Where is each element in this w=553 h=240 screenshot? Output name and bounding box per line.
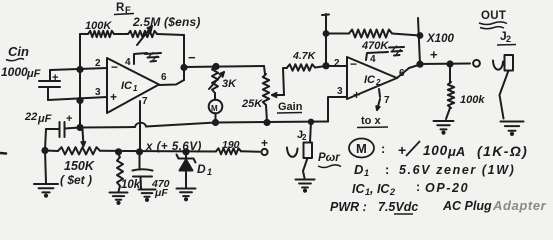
svg-text:7: 7 bbox=[142, 96, 148, 107]
svg-text:2: 2 bbox=[389, 187, 395, 197]
svg-text:−: − bbox=[350, 57, 357, 71]
svg-text:+: + bbox=[52, 72, 58, 84]
svg-text:OUT: OUT bbox=[481, 10, 506, 22]
svg-text:Gain: Gain bbox=[278, 101, 303, 113]
svg-text:+: + bbox=[430, 47, 438, 62]
svg-text:1: 1 bbox=[207, 167, 212, 177]
svg-text:(1K-Ω): (1K-Ω) bbox=[477, 143, 528, 159]
svg-text:μF: μF bbox=[26, 68, 41, 80]
svg-text:PWR :: PWR : bbox=[330, 200, 367, 214]
svg-text:4: 4 bbox=[370, 54, 376, 65]
svg-text:100k: 100k bbox=[460, 94, 485, 106]
svg-text:Adapter: Adapter bbox=[492, 198, 547, 213]
svg-text:2: 2 bbox=[302, 133, 307, 142]
svg-text:Pωr: Pωr bbox=[318, 152, 340, 164]
svg-text:+: + bbox=[353, 88, 360, 102]
svg-text:2: 2 bbox=[95, 58, 101, 69]
svg-text:2: 2 bbox=[375, 78, 381, 87]
svg-text:IC: IC bbox=[121, 80, 133, 92]
svg-text:R: R bbox=[116, 2, 125, 14]
svg-text:100: 100 bbox=[423, 143, 448, 158]
svg-text:1: 1 bbox=[133, 84, 138, 93]
svg-text:+: + bbox=[398, 142, 406, 158]
svg-text:IC: IC bbox=[364, 74, 376, 86]
svg-text:4.7K: 4.7K bbox=[292, 50, 317, 62]
svg-text:470K: 470K bbox=[361, 40, 389, 52]
svg-text:μF: μF bbox=[37, 113, 52, 125]
svg-text:22: 22 bbox=[24, 111, 37, 123]
svg-text:10k: 10k bbox=[121, 179, 141, 191]
svg-text:D: D bbox=[197, 162, 206, 176]
svg-text::: : bbox=[416, 180, 420, 194]
svg-text:x (+ 5.6V): x (+ 5.6V) bbox=[145, 141, 202, 153]
svg-text:7.5Vdc: 7.5Vdc bbox=[378, 200, 418, 214]
svg-text:+: + bbox=[110, 90, 117, 104]
svg-text:7: 7 bbox=[384, 95, 390, 106]
svg-text:AC Plug: AC Plug bbox=[442, 199, 492, 213]
svg-text:6: 6 bbox=[161, 72, 167, 83]
svg-text:Cin: Cin bbox=[8, 44, 29, 59]
svg-text:1000: 1000 bbox=[1, 65, 28, 79]
svg-text:to x: to x bbox=[361, 115, 381, 127]
svg-text:−: − bbox=[111, 60, 118, 74]
svg-text:3K: 3K bbox=[222, 78, 237, 90]
svg-text:IC: IC bbox=[352, 182, 365, 196]
svg-text:μF: μF bbox=[154, 187, 168, 199]
svg-text:100K: 100K bbox=[85, 20, 112, 32]
svg-text:2: 2 bbox=[334, 58, 340, 69]
svg-text:190: 190 bbox=[222, 139, 240, 151]
svg-text:2: 2 bbox=[506, 34, 511, 44]
svg-text:( $et ): ( $et ) bbox=[60, 173, 92, 187]
svg-text:D: D bbox=[354, 162, 364, 177]
svg-text:150K: 150K bbox=[64, 159, 95, 173]
svg-text:5.6V zener (1W): 5.6V zener (1W) bbox=[399, 163, 515, 177]
svg-text:M: M bbox=[356, 141, 367, 156]
svg-text:1: 1 bbox=[364, 168, 369, 178]
svg-text:, IC: , IC bbox=[369, 182, 390, 196]
svg-text:μA: μA bbox=[447, 144, 465, 159]
svg-text:3: 3 bbox=[95, 87, 101, 98]
svg-text:+: + bbox=[261, 136, 268, 150]
svg-text:X100: X100 bbox=[426, 33, 454, 45]
svg-text:6: 6 bbox=[399, 68, 405, 79]
svg-text:M: M bbox=[211, 104, 218, 113]
svg-text:25K: 25K bbox=[241, 98, 263, 110]
svg-text:−: − bbox=[188, 50, 196, 65]
svg-text:OP-20: OP-20 bbox=[425, 181, 469, 195]
svg-text:4: 4 bbox=[125, 57, 131, 68]
svg-text:3: 3 bbox=[337, 86, 343, 97]
svg-text:+: + bbox=[66, 113, 72, 125]
svg-text:2.5M ($ens): 2.5M ($ens) bbox=[132, 15, 201, 29]
svg-text::: : bbox=[381, 141, 385, 156]
svg-text::: : bbox=[385, 162, 389, 177]
